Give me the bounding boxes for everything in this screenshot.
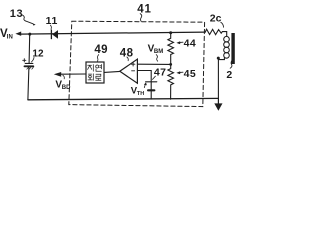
wire: winding bottom to ground rail xyxy=(218,58,224,99)
dashed box 41 (standby control block) xyxy=(69,21,205,106)
transformer core bar xyxy=(231,33,234,64)
hangul text: 회로 (row 2) xyxy=(88,74,101,81)
leader 47 xyxy=(153,76,156,79)
leader arrow 45 xyxy=(179,71,183,73)
battery 47 plate short xyxy=(148,89,154,91)
leader VBM xyxy=(156,55,158,62)
junction node (winding dot) xyxy=(217,57,220,60)
leader 48 xyxy=(127,57,128,61)
svg-text:11: 11 xyxy=(46,15,58,27)
svg-text:BM: BM xyxy=(154,49,163,55)
wire: comparator plus input xyxy=(138,63,171,65)
svg-text:48: 48 xyxy=(120,47,134,59)
leader 49 xyxy=(97,55,98,62)
leader 2 xyxy=(230,60,232,68)
wire: cap branch upper xyxy=(28,34,31,63)
resistor R45 xyxy=(168,64,174,99)
minus input marker xyxy=(132,70,135,72)
svg-text:47: 47 xyxy=(154,66,166,78)
svg-text:45: 45 xyxy=(184,68,196,80)
svg-text:IN: IN xyxy=(7,35,13,41)
wire: comparator minus input xyxy=(138,71,152,82)
VTH arrow xyxy=(144,84,145,88)
node VBD arrowhead xyxy=(54,72,61,77)
capacitor C12 hatch xyxy=(27,67,34,69)
junction node (comparator + tap) xyxy=(169,63,172,66)
svg-text:TH: TH xyxy=(137,91,144,97)
leader 11 xyxy=(49,25,52,29)
wire: cap branch lower xyxy=(28,67,29,100)
battery 47 plate long xyxy=(146,81,157,83)
transformer winding 2c (loops) xyxy=(224,36,230,58)
wire: bottom rail xyxy=(28,98,219,99)
junction node (cap 12 tap) xyxy=(28,33,31,36)
svg-text:2c: 2c xyxy=(210,12,222,24)
hangul text: 지연 (row 1) xyxy=(88,65,102,72)
resistor R44 xyxy=(168,33,174,64)
battery 47 mid lead xyxy=(150,82,152,89)
delay circuit box 49 xyxy=(86,62,104,83)
plus input marker xyxy=(131,62,135,66)
wire: top rail xyxy=(21,32,206,34)
ground xyxy=(217,98,219,103)
capacitor C12 plate top xyxy=(25,62,33,64)
junction node (divider top) xyxy=(169,31,172,34)
diode D11 cathode bar xyxy=(50,30,52,38)
leader 12 xyxy=(31,57,34,62)
op-amp U48 comparator triangle xyxy=(120,59,138,83)
wire: comparator output to delay box xyxy=(104,71,120,72)
leader arrow 44 xyxy=(179,41,183,43)
svg-text:13: 13 xyxy=(10,8,23,20)
svg-text:2: 2 xyxy=(226,69,232,81)
node VIN arrowhead xyxy=(15,32,21,36)
leader 41 xyxy=(140,14,142,22)
wire: VBD output xyxy=(61,73,86,75)
leader 13 xyxy=(22,15,33,24)
svg-text:BD: BD xyxy=(62,85,71,91)
resistor lead 2c (horizontal zigzag) xyxy=(205,29,227,36)
svg-text:44: 44 xyxy=(184,38,196,50)
svg-text:49: 49 xyxy=(94,44,108,56)
leader 2c xyxy=(221,22,224,27)
capacitor C12 plate bottom xyxy=(25,65,34,67)
plus polarity mark xyxy=(23,59,26,62)
svg-text:41: 41 xyxy=(137,4,151,16)
leader VBD xyxy=(63,75,65,79)
battery 47 lower lead xyxy=(150,91,152,99)
diode D11 triangle xyxy=(52,30,58,39)
